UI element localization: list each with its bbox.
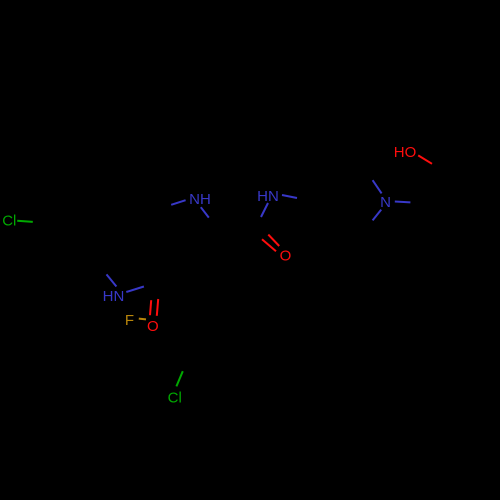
svg-text:N: N bbox=[380, 194, 391, 211]
bond C7a-N1 (oxindole HN, upper half-bond) bbox=[107, 274, 117, 286]
svg-text:HN: HN bbox=[257, 188, 279, 205]
double bond C2=O oxindole, right line (red half) bbox=[157, 299, 158, 316]
svg-text:F: F bbox=[125, 312, 134, 329]
bond N-CH2 (piperidine N, lower-left half-bond) bbox=[373, 210, 382, 221]
bond Cl-Caryl (bottom chlorine half-bond) bbox=[176, 371, 182, 386]
svg-text:HN: HN bbox=[103, 288, 125, 305]
bond N-Caryl (piperidine N, right half-bond) bbox=[395, 201, 411, 204]
svg-text:O: O bbox=[147, 318, 159, 335]
svg-text:HO: HO bbox=[394, 144, 417, 161]
bond N1-C2 (indole NH, lower-right half-bond) bbox=[201, 207, 209, 217]
double bond C=O amide, outer line (red half) bbox=[262, 239, 276, 251]
bond F-Caryl (fluorine half-bond) bbox=[139, 318, 146, 321]
svg-text:Cl: Cl bbox=[2, 213, 16, 230]
svg-text:Cl: Cl bbox=[168, 389, 182, 406]
double bond C=O amide, inner line (red half) bbox=[268, 235, 279, 246]
bond Cl-C6 (left chlorine half-bond) bbox=[17, 221, 33, 222]
bond N-CH2 (piperidine N, upper-left half-bond) bbox=[373, 180, 382, 193]
bond C7a-N1 (indole NH, left half-bond) bbox=[171, 200, 185, 205]
bond N-CH2 (amide HN, right half-bond) bbox=[282, 195, 297, 198]
bond N-C(=O) (amide HN, lower-left half-bond) bbox=[261, 203, 268, 217]
bond N1-C2 (oxindole HN, right half-bond) bbox=[126, 287, 144, 293]
svg-text:NH: NH bbox=[189, 191, 211, 208]
double bond C2=O oxindole, left line (red half) bbox=[150, 300, 151, 315]
bond O-Caryl (phenol HO half-bond) bbox=[418, 155, 432, 163]
svg-text:O: O bbox=[280, 247, 292, 264]
